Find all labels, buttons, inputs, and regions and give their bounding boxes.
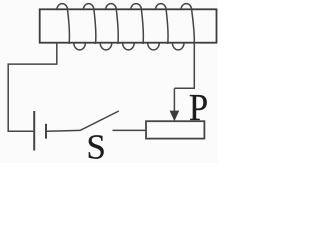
svg-text:P: P	[189, 86, 208, 129]
svg-text:S: S	[86, 127, 105, 163]
